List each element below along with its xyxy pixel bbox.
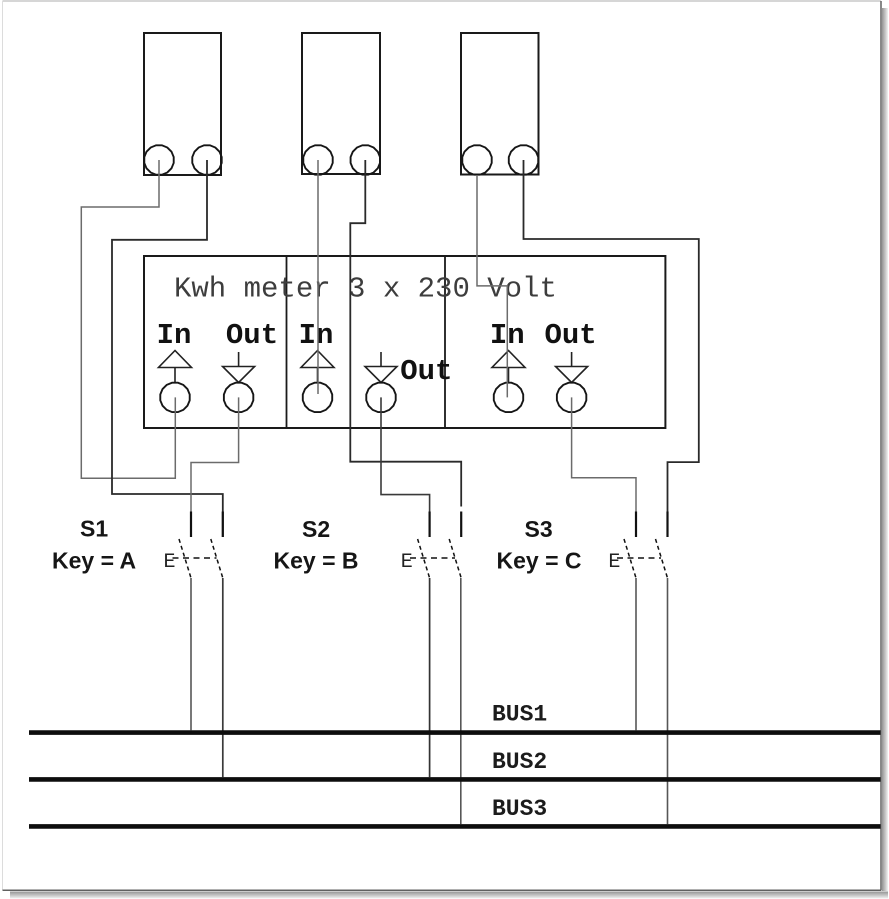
wire S2 left pole to BUS2 [429,578,431,777]
bus bar BUS3 [29,824,881,829]
svg-text:BUS1: BUS1 [492,702,547,728]
svg-text:Key = A: Key = A [52,548,136,574]
wire F3-left to meter In3 [477,175,507,397]
wire S3 right pole to BUS3 [667,578,669,824]
svg-text:In: In [157,319,192,352]
switch S3 right pole terminal [666,512,668,538]
svg-text:E: E [608,551,620,574]
terminal circle F1 right [192,145,221,174]
terminal circle F2 right [351,145,380,174]
svg-text:S1: S1 [80,516,108,542]
switch S2 key label [274,548,359,574]
switch S3 key label [497,548,582,574]
meter divider 2 [444,256,446,428]
meter title label [174,273,557,306]
terminal circle F3 right [509,145,538,174]
svg-text:E: E [164,551,176,574]
switch S3 left blade [624,539,636,578]
wire meter Out1 to switch S1 left pole [191,397,239,537]
switch S2 left pole terminal [429,512,431,538]
wire S2 right pole to BUS3 [460,578,462,824]
switch S3 label [525,516,553,542]
label In section 3 [490,319,525,352]
svg-text:BUS2: BUS2 [492,749,547,775]
wire S3 left pole to BUS1 [635,578,637,730]
fuse box F2 [302,33,380,174]
label Out section 3 [544,319,596,352]
svg-text:Kwh meter 3 x 230 Volt: Kwh meter 3 x 230 Volt [174,273,557,306]
Out arrow terminal 2 [365,352,397,412]
wire F1-right to switch S1 right pole [112,160,223,537]
svg-text:E: E [401,551,413,574]
wire F3-right to switch S3 right pole [524,160,699,537]
BUS3 label [492,796,547,822]
svg-text:Out: Out [400,355,452,388]
svg-text:S2: S2 [302,516,330,542]
switch S2 E actuator label [401,551,413,574]
switch S1 left blade [179,539,191,578]
switch S1 E actuator label [164,551,176,574]
switch S1 key label [52,548,136,574]
bus bar BUS2 [29,777,881,782]
terminal circle F3 left [462,145,491,174]
wire S1 left pole to BUS1 [190,578,192,730]
label In section 1 [157,319,192,352]
wire F1-left to meter In1 [81,160,175,478]
label In section 2 [299,319,334,352]
In arrow terminal 3 [492,351,525,413]
svg-text:Out: Out [226,319,278,352]
Out arrow terminal 1 [223,352,255,412]
In arrow terminal 2 [301,351,334,413]
wire S1 right pole to BUS2 [222,578,224,777]
BUS2 label [492,749,547,775]
fuse box F3 [461,33,539,175]
switch S1 label [80,516,108,542]
svg-text:In: In [299,319,334,352]
fuse box F1 [144,33,221,175]
Out arrow terminal 3 [556,352,588,412]
svg-text:Key = C: Key = C [497,548,582,574]
switch S1 right blade [211,539,223,578]
switch S3 left pole terminal [635,512,637,538]
svg-text:Key = B: Key = B [274,548,359,574]
switch S1 right pole terminal [222,512,224,538]
In arrow terminal 1 [159,351,192,413]
switch S3 right blade [656,539,668,578]
switch S2 left blade [418,539,430,578]
BUS1 label [492,702,547,728]
label Out section 1 [226,319,278,352]
switch S2 label [302,516,330,542]
svg-text:S3: S3 [525,516,553,542]
wire meter Out3 to switch S3 left pole [572,397,636,537]
switch S1 left pole terminal [190,512,192,538]
switch S2 linkage [410,557,455,559]
switch S3 linkage [617,557,661,559]
terminal circle F2 left [303,145,332,174]
wire F2-right to switch S2 right pole [350,160,461,507]
kWh meter U1 [144,256,665,428]
switch S2 right pole terminal [460,512,462,538]
svg-text:BUS3: BUS3 [492,796,547,822]
bus bar BUS1 [29,730,881,735]
label Out section 2 [400,355,452,388]
meter divider 1 [286,256,288,428]
switch S2 right blade [449,539,461,578]
wire F2-left to meter In2 [317,160,319,394]
switch S3 E actuator label [608,551,620,574]
svg-text:Out: Out [544,319,596,352]
switch S1 linkage [173,557,217,559]
wire meter Out2 to switch S2 left pole [381,397,430,537]
terminal circle F1 left [144,145,173,174]
